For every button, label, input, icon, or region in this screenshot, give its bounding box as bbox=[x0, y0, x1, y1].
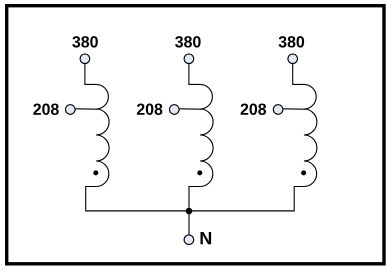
polarity dot winding B bbox=[197, 170, 202, 175]
neutral bus wire bbox=[85, 210, 295, 212]
label 208 A bbox=[33, 103, 58, 114]
wire: 208 terminal B to winding tap bbox=[179, 108, 201, 110]
label 380 B bbox=[175, 36, 201, 48]
transformer winding B bbox=[200, 84, 213, 186]
wire: winding A bottom to neutral bus bbox=[86, 187, 96, 211]
label 380 C bbox=[279, 36, 305, 48]
label 208 C bbox=[241, 103, 266, 114]
wire: 380 terminal B to winding top bbox=[189, 64, 200, 85]
wire: 380 terminal C to winding top bbox=[293, 64, 304, 85]
terminal 208 B bbox=[170, 105, 180, 115]
wire: 380 terminal A to winding top bbox=[85, 64, 96, 85]
label N bbox=[201, 232, 212, 244]
polarity dot winding A bbox=[93, 170, 98, 175]
terminal 380 C bbox=[288, 54, 298, 64]
transformer winding A bbox=[96, 84, 109, 186]
wire: winding B bottom to neutral bus bbox=[189, 187, 200, 211]
wire: 208 terminal C to winding tap bbox=[283, 108, 305, 110]
label 380 A bbox=[72, 36, 98, 48]
terminal 208 A bbox=[66, 105, 76, 115]
wire: 208 terminal A to winding tap bbox=[75, 108, 97, 110]
label 208 B bbox=[137, 103, 162, 114]
terminal N bbox=[184, 235, 194, 245]
wire: junction to N terminal bbox=[188, 211, 190, 235]
terminal 380 B bbox=[184, 54, 194, 64]
terminal 208 C bbox=[273, 105, 283, 115]
transformer winding C bbox=[304, 84, 317, 186]
wire: winding C bottom to neutral bus bbox=[294, 187, 304, 211]
polarity dot winding C bbox=[301, 170, 306, 175]
terminal 380 A bbox=[80, 54, 90, 64]
junction node (neutral tie point) bbox=[186, 208, 193, 215]
